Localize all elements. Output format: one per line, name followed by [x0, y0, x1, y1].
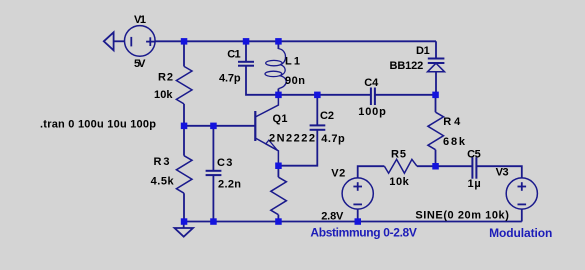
- wire mid rail C1 corner to C4 left: [278, 94, 371, 96]
- svg-text:C1: C1: [227, 49, 240, 61]
- svg-text:4.7p: 4.7p: [219, 73, 241, 85]
- voltage source V3: [506, 178, 537, 209]
- ground GND2 (bottom rail): [175, 222, 194, 237]
- svg-text:C2: C2: [320, 110, 334, 122]
- junction mid rail at C2: [314, 92, 321, 99]
- junction base wire at C3: [210, 123, 217, 130]
- wire D1 top drop: [435, 41, 437, 58]
- resistor R3: [176, 156, 192, 194]
- svg-text:C5: C5: [467, 149, 481, 161]
- wire R3 bottom: [183, 193, 185, 221]
- svg-text:4.5k: 4.5k: [151, 175, 175, 187]
- wire L1 top: [277, 41, 279, 49]
- wire C2 top: [316, 95, 318, 125]
- wire R3 top: [183, 126, 185, 156]
- wire bottom rail: [184, 221, 522, 223]
- capacitor C5: [472, 157, 476, 179]
- wire R1 top: [277, 166, 279, 178]
- junction bottom rail at ground: [181, 218, 188, 225]
- svg-text:10k: 10k: [154, 89, 173, 101]
- junction top rail at C1: [243, 38, 250, 45]
- wire V3 bottom: [521, 209, 523, 221]
- svg-text:2N2222: 2N2222: [269, 133, 315, 145]
- svg-text:4.7p: 4.7p: [321, 133, 345, 145]
- svg-text:V1: V1: [134, 14, 146, 26]
- voltage source V2: [342, 178, 373, 209]
- svg-text:.tran 0 100u 10u 100p: .tran 0 100u 10u 100p: [40, 119, 156, 131]
- resistor R1: [271, 177, 287, 215]
- resistor R4: [428, 112, 444, 150]
- transistor Q1 2N2222: [255, 96, 278, 164]
- svg-text:5V: 5V: [134, 58, 146, 70]
- resistor R2: [176, 66, 192, 104]
- junction R4/R5/C5: [432, 163, 439, 170]
- svg-text:R5: R5: [391, 148, 406, 160]
- capacitor C2: [310, 125, 326, 129]
- svg-text:R2: R2: [158, 72, 173, 84]
- capacitor C1: [238, 62, 254, 66]
- svg-text:V3: V3: [496, 167, 509, 179]
- wire R1 bottom: [277, 215, 279, 222]
- svg-text:SINE(0 20m 10k): SINE(0 20m 10k): [415, 210, 509, 222]
- wire C5 to V3 top: [476, 166, 521, 178]
- svg-text:1µ: 1µ: [468, 178, 481, 190]
- wire L1 bottom: [277, 89, 279, 95]
- wire R4 bottom: [435, 150, 437, 167]
- junction top rail at L1: [275, 38, 282, 45]
- diode D1 (varactor BB122): [428, 59, 445, 72]
- svg-text:V2: V2: [331, 168, 345, 180]
- junction mid rail at D1/R4: [432, 92, 439, 99]
- wire C1 top: [245, 41, 247, 61]
- svg-text:68k: 68k: [443, 136, 466, 148]
- wire C2 bottom to emitter junction: [278, 130, 317, 166]
- capacitor C3: [206, 171, 222, 175]
- wire V2 bottom: [357, 209, 359, 221]
- junction emitter at R1/C2: [275, 163, 282, 170]
- svg-text:C4: C4: [364, 77, 379, 89]
- wire top rail V1 to D1 corner: [155, 40, 436, 42]
- inductor L1: [265, 49, 286, 89]
- ground GND1 (left of V1): [104, 32, 125, 50]
- svg-text:10k: 10k: [389, 176, 409, 188]
- wire C3 top: [212, 126, 214, 171]
- wire C1 bottom to mid rail: [246, 66, 278, 95]
- svg-text:2.8V: 2.8V: [321, 211, 344, 223]
- wire R4 top: [435, 95, 437, 112]
- voltage source V1: [125, 26, 156, 57]
- wire R5 right to junction: [417, 165, 436, 167]
- svg-text:BB122: BB122: [390, 60, 424, 72]
- junction bottom rail at R1: [275, 218, 282, 225]
- junction top rail at R2: [181, 38, 188, 45]
- svg-text:Q1: Q1: [273, 113, 288, 125]
- wire D1 to mid junction: [435, 72, 437, 95]
- svg-text:Abstimmung 0-2.8V: Abstimmung 0-2.8V: [310, 226, 417, 240]
- junction base wire at R2/R3: [181, 123, 188, 130]
- svg-text:C3: C3: [217, 157, 232, 169]
- wire C4 right to D1 bottom junction: [375, 94, 436, 96]
- svg-text:90n: 90n: [285, 75, 305, 87]
- wire junction to C5: [436, 165, 473, 167]
- svg-text:D1: D1: [416, 45, 430, 57]
- svg-text:Modulation: Modulation: [489, 226, 552, 240]
- wire Q1 base: [184, 125, 255, 127]
- wire C3 bottom: [212, 175, 214, 221]
- junction bottom rail at C3: [210, 218, 217, 225]
- wire V2 top to R5: [358, 166, 385, 178]
- wire R2 top: [183, 41, 185, 66]
- wire R2 bottom: [183, 104, 185, 126]
- junction mid rail at Q1 collector: [275, 92, 282, 99]
- svg-text:2.2n: 2.2n: [218, 179, 241, 191]
- resistor R5: [384, 159, 417, 173]
- svg-text:100p: 100p: [358, 106, 386, 118]
- capacitor C4: [371, 88, 375, 106]
- junction bottom rail at V2: [355, 218, 362, 225]
